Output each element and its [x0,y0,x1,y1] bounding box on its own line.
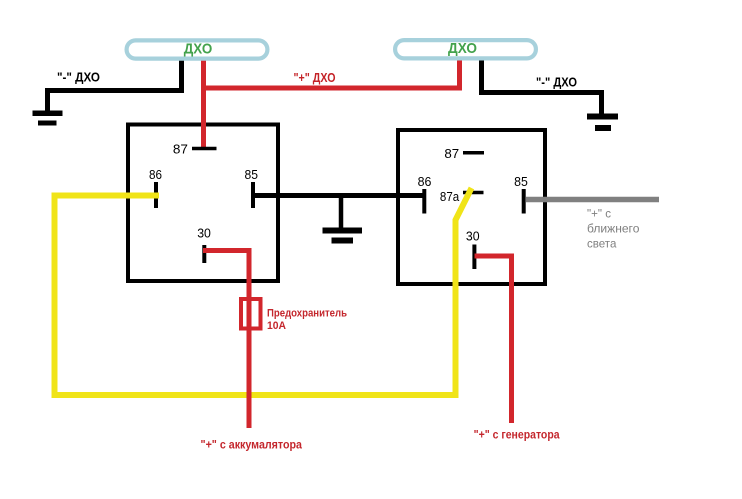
node label "+" с ближнего света [587,207,640,251]
ground GND3 [323,228,363,244]
wire yellow: K1 pin86 to K2 pin87a [55,188,472,395]
svg-text:"+" с: "+" с [587,207,611,221]
svg-text:ДХО: ДХО [184,41,213,58]
fuse value label [267,308,347,332]
wire red generator: K2 pin30 down [475,256,512,423]
K2 pin 30 [472,245,476,270]
ground GND2 [587,114,618,132]
svg-text:30: 30 [466,228,480,243]
svg-text:87а: 87а [440,189,460,204]
wire black lamp1 negative to ground [48,59,182,111]
ground GND1 [33,111,63,126]
svg-text:87: 87 [173,141,188,156]
K1 pin 87 [192,147,217,151]
svg-text:86: 86 [149,167,162,182]
svg-text:Предохранитель: Предохранитель [267,308,347,320]
wire red branch between lamps [201,58,460,91]
svg-text:86: 86 [418,174,432,189]
svg-text:"+" ДХО: "+" ДХО [294,70,336,85]
K2 pin 87 [463,151,484,155]
wire black lamp2 negative to ground [482,59,602,114]
wire red battery: K1 pin30 down through fuse [203,251,249,429]
svg-text:87: 87 [444,146,459,161]
svg-text:"+" с аккумалятора: "+" с аккумалятора [201,438,303,452]
K1 pin 85 [251,182,255,208]
wire gray: K2 pin85 to low beam [526,197,659,203]
K1 pin 86 [154,182,158,208]
wire black middle: K1 pin85 to K2 pin86 [255,193,423,198]
svg-text:30: 30 [197,225,211,240]
svg-text:света: света [587,237,617,251]
wire red lamp1 positive down to K1 pin 87 [201,58,206,150]
K2 pin 87a [463,191,484,195]
svg-text:85: 85 [245,167,259,182]
svg-text:"-" ДХО: "-" ДХО [536,75,577,90]
fuse F1 10A [241,299,261,329]
lamp L1 (DRL module) [127,40,268,58]
K1 pin 30 [202,245,206,263]
relay K2 box [398,130,545,284]
lamp L2 (DRL module) [395,40,536,58]
svg-text:ближнего: ближнего [587,221,640,235]
svg-text:"+" с генератора: "+" с генератора [474,428,560,442]
K2 pin 85 [522,189,526,214]
svg-text:"-" ДХО: "-" ДХО [57,70,100,85]
svg-text:ДХО: ДХО [448,40,477,57]
K2 pin 86 [422,189,426,214]
relay K1 box [128,125,278,282]
svg-text:10А: 10А [267,320,286,332]
wire black ground branch [339,196,344,230]
svg-text:85: 85 [514,174,528,189]
